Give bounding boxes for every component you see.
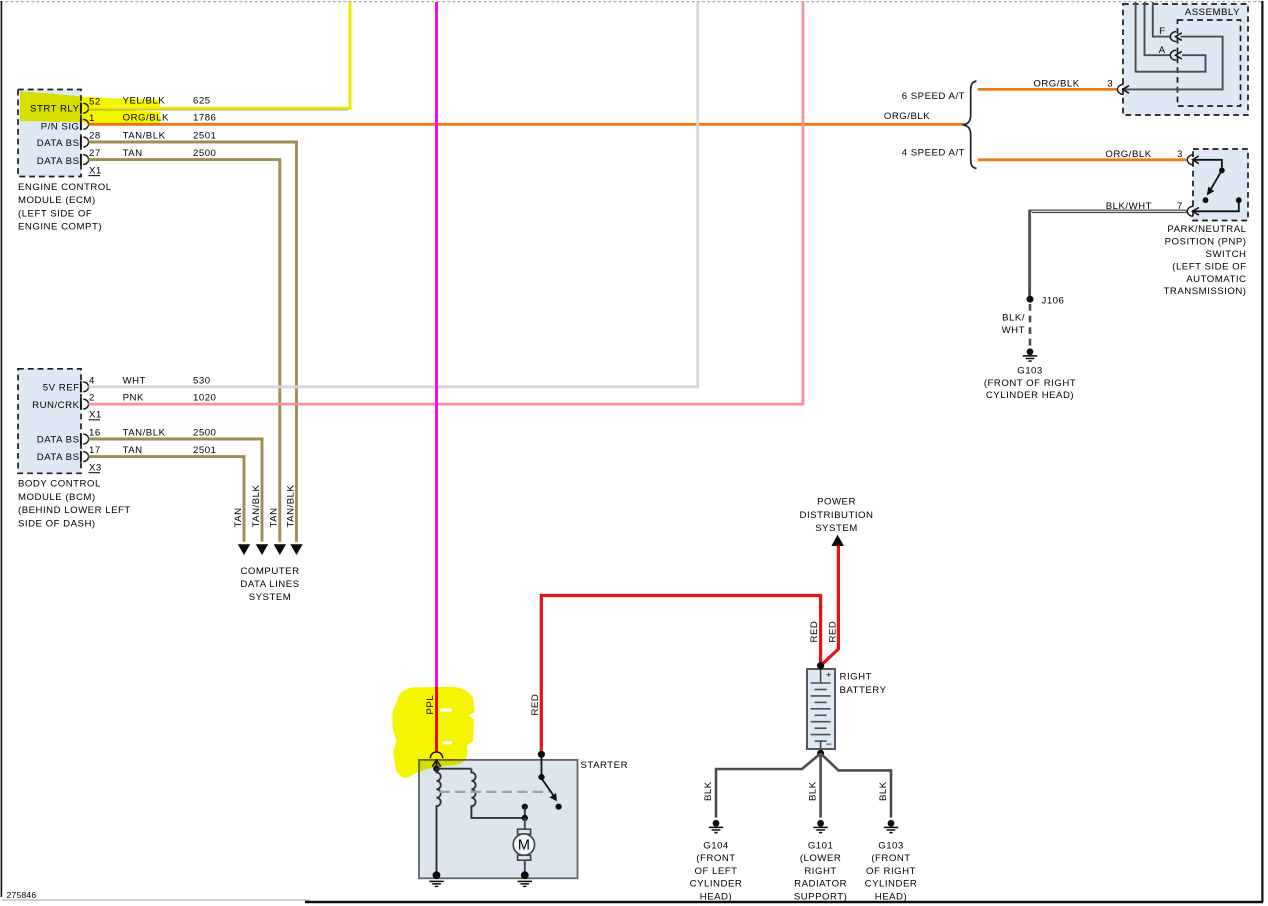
starter ground symbol left: [429, 880, 443, 882]
battery negative junction dot: [817, 750, 824, 757]
svg-text:2500: 2500: [193, 148, 216, 159]
svg-text:J106: J106: [1042, 296, 1065, 307]
up arrow to power distribution: [831, 535, 844, 546]
svg-text:CYLINDER: CYLINDER: [865, 879, 918, 890]
svg-text:3: 3: [1177, 149, 1183, 160]
svg-text:CYLINDER HEAD): CYLINDER HEAD): [986, 390, 1074, 401]
svg-text:3: 3: [1107, 78, 1113, 89]
svg-text:RED: RED: [827, 621, 838, 643]
svg-text:(FRONT OF RIGHT: (FRONT OF RIGHT: [984, 378, 1076, 389]
svg-text:SYSTEM: SYSTEM: [249, 592, 292, 603]
svg-text:(FRONT: (FRONT: [696, 853, 735, 864]
PNP contact dot park: [1203, 197, 1209, 203]
svg-text:BLK/WHT: BLK/WHT: [1106, 201, 1152, 212]
wire TAN 2500 ECM: [89, 160, 280, 542]
svg-text:BLK: BLK: [878, 781, 889, 801]
svg-text:1786: 1786: [193, 112, 216, 123]
svg-text:RIGHT: RIGHT: [804, 866, 836, 877]
wire TAN/BLK 2500 BCM: [89, 439, 263, 542]
starter hold-in coil: [437, 769, 441, 876]
svg-text:TRANSMISSION): TRANSMISSION): [1164, 286, 1247, 297]
svg-text:(LEFT SIDE OF: (LEFT SIDE OF: [1172, 261, 1246, 272]
wire PPL red-looking segment under highlighter: [435, 685, 438, 752]
ECM pin 52 connector: [83, 103, 88, 113]
svg-text:BLK/: BLK/: [1002, 313, 1025, 324]
wire BLK to G103: [821, 753, 891, 817]
BCM connector box: [18, 369, 81, 474]
svg-text:PNK: PNK: [123, 393, 144, 404]
svg-text:STARTER: STARTER: [581, 760, 629, 771]
starter coil junction dot: [522, 815, 528, 821]
assembly internal wire from pin A loop: [1136, 2, 1206, 72]
wire BLK to G104: [716, 753, 821, 817]
svg-text:DATA BS: DATA BS: [37, 138, 80, 149]
svg-text:OF LEFT: OF LEFT: [694, 866, 737, 877]
starter PPL connector arc: [430, 752, 442, 758]
down arrow to data lines at x=262: [256, 544, 268, 555]
svg-text:P/N SIG: P/N SIG: [41, 122, 80, 133]
highlighter mark over PPL at starter: [393, 687, 475, 778]
svg-text:X3: X3: [89, 463, 102, 474]
assembly wire into pin F: [1153, 2, 1171, 37]
brace 6/4 speed split: [964, 81, 977, 169]
svg-text:POSITION (PNP): POSITION (PNP): [1165, 237, 1247, 248]
wire RED battery to PDS: [821, 546, 839, 666]
starter ground dot left: [433, 871, 441, 879]
assembly inner box: [1178, 20, 1241, 106]
page bottom border: [2, 899, 310, 901]
svg-text:SUPPORT): SUPPORT): [794, 892, 848, 903]
svg-text:G101: G101: [808, 841, 834, 852]
page right border: [1261, 1, 1263, 902]
PNP internal wire pin 7: [1193, 203, 1239, 212]
wire YEL/BLK 625: [89, 2, 351, 108]
svg-text:POWER: POWER: [817, 497, 856, 508]
starter switch arm: [542, 780, 553, 796]
svg-text:WHT: WHT: [1002, 325, 1025, 336]
starter contact stub: [524, 807, 526, 818]
svg-text:M: M: [518, 838, 530, 854]
PNP pin 3 connector: [1187, 155, 1193, 165]
svg-text:A: A: [1159, 45, 1166, 56]
svg-text:PARK/NEUTRAL: PARK/NEUTRAL: [1167, 224, 1246, 235]
svg-text:TAN: TAN: [233, 507, 244, 527]
starter switch open contact dot: [556, 804, 562, 810]
svg-text:16: 16: [89, 428, 101, 439]
svg-text:G104: G104: [703, 841, 729, 852]
wire PNK 1020: [89, 2, 804, 404]
starter wire to pull-in coil: [437, 768, 472, 770]
svg-text:SWITCH: SWITCH: [1206, 249, 1247, 260]
svg-text:TAN: TAN: [269, 507, 280, 527]
svg-text:2501: 2501: [193, 445, 216, 456]
wire WHT 530: [89, 2, 698, 387]
ground G101: [817, 820, 824, 827]
svg-text:DATA BS: DATA BS: [37, 156, 80, 167]
svg-text:RUN/CRK: RUN/CRK: [32, 400, 79, 411]
svg-text:ORG/BLK: ORG/BLK: [1033, 78, 1079, 89]
svg-text:ENGINE CONTROL: ENGINE CONTROL: [18, 182, 112, 193]
svg-text:WHT: WHT: [123, 375, 146, 386]
svg-text:ENGINE COMPT): ENGINE COMPT): [18, 222, 102, 233]
assembly wire into pin A: [1145, 2, 1171, 55]
svg-text:2500: 2500: [193, 428, 216, 439]
BCM pin 2 connector: [83, 399, 88, 409]
svg-text:RED: RED: [530, 694, 541, 716]
page top dashed border: [0, 1, 1262, 3]
svg-text:TAN/BLK: TAN/BLK: [123, 428, 166, 439]
svg-text:625: 625: [193, 96, 211, 107]
svg-text:17: 17: [89, 445, 101, 456]
wire PPL magenta段: [435, 2, 438, 685]
svg-text:27: 27: [89, 148, 101, 159]
assembly outer box: [1123, 4, 1248, 115]
ground G103 lower: [888, 820, 895, 827]
ECM pin 28 connector: [83, 137, 88, 147]
starter mechanical link dashed: [440, 791, 550, 793]
ground G103 upper: [1027, 348, 1034, 355]
battery box: [807, 669, 835, 749]
svg-text:2: 2: [89, 393, 95, 404]
svg-text:MODULE (ECM): MODULE (ECM): [18, 195, 96, 206]
svg-text:2501: 2501: [193, 131, 216, 142]
svg-text:TAN/BLK: TAN/BLK: [285, 485, 296, 528]
BCM pin 4 connector: [83, 382, 88, 392]
svg-text:ORG/BLK: ORG/BLK: [1105, 149, 1151, 160]
svg-text:OF RIGHT: OF RIGHT: [866, 866, 916, 877]
svg-text:TAN/BLK: TAN/BLK: [251, 485, 262, 528]
svg-text:DATA BS: DATA BS: [37, 452, 80, 463]
svg-text:DATA BS: DATA BS: [37, 435, 80, 446]
PNP internal wire pin 3 to contact: [1193, 160, 1222, 168]
starter pull-in coil: [471, 769, 524, 818]
svg-text:DISTRIBUTION: DISTRIBUTION: [800, 510, 874, 521]
PNP contact dot common: [1219, 168, 1225, 174]
svg-text:BODY CONTROL: BODY CONTROL: [18, 479, 101, 490]
starter wire contact to motor: [524, 818, 526, 829]
starter ground symbol right: [518, 880, 532, 882]
svg-text:DATA LINES: DATA LINES: [240, 579, 299, 590]
wire BLK/WHT: [1030, 211, 1187, 296]
wire ORG/BLK 4-speed branch: [978, 158, 1187, 161]
svg-text:+: +: [826, 670, 832, 681]
svg-text:TAN: TAN: [123, 148, 143, 159]
starter red feed junction dot: [538, 751, 545, 758]
svg-text:5V REF: 5V REF: [43, 383, 80, 394]
PNP pin 7 connector: [1187, 206, 1193, 216]
svg-text:G103: G103: [878, 841, 904, 852]
PNP switch arm: [1211, 173, 1221, 190]
svg-text:SIDE OF DASH): SIDE OF DASH): [18, 518, 96, 529]
wire BLK/WHT dashed to ground: [1029, 304, 1032, 348]
svg-text:CYLINDER: CYLINDER: [690, 879, 743, 890]
starter solenoid junction dot: [433, 765, 440, 772]
starter motor M: [518, 829, 531, 834]
BCM pin 16 connector: [83, 434, 88, 444]
svg-text:RIGHT: RIGHT: [840, 672, 872, 683]
highlighter skip marks: [440, 708, 452, 712]
svg-text:6 SPEED A/T: 6 SPEED A/T: [902, 91, 965, 102]
battery plates: [811, 682, 831, 684]
starter ground dot right: [521, 871, 529, 879]
battery positive junction dot: [817, 662, 824, 669]
svg-text:BLK: BLK: [703, 781, 714, 801]
svg-text:(LOWER: (LOWER: [800, 853, 842, 864]
starter PPL entry arrow: [432, 760, 440, 767]
svg-text:X1: X1: [89, 166, 102, 177]
svg-text:HEAD): HEAD): [700, 892, 732, 903]
ground G104: [713, 820, 720, 827]
svg-text:MODULE (BCM): MODULE (BCM): [18, 492, 96, 503]
ECM pin 27 connector: [83, 155, 88, 165]
starter motor contact dot: [522, 804, 528, 810]
svg-text:7: 7: [1177, 201, 1183, 212]
wire TAN 2501 BCM: [89, 457, 245, 542]
wire ORG/BLK 1786: [89, 123, 967, 126]
svg-text:530: 530: [193, 375, 211, 386]
wire TAN/BLK 2501 ECM: [89, 142, 297, 542]
svg-text:4: 4: [89, 375, 95, 386]
svg-text:SYSTEM: SYSTEM: [815, 523, 858, 534]
starter switch lead: [540, 756, 542, 777]
PNP contact dot B: [1236, 197, 1242, 203]
svg-text:AUTOMATIC: AUTOMATIC: [1186, 274, 1246, 285]
wire RED battery to starter: [541, 596, 820, 754]
svg-text:BATTERY: BATTERY: [840, 685, 887, 696]
svg-text:BLK: BLK: [808, 781, 819, 801]
splice J106: [1027, 296, 1034, 303]
starter box: [419, 760, 578, 878]
down arrow to data lines at x=279.8: [274, 544, 286, 555]
svg-text:(LEFT SIDE OF: (LEFT SIDE OF: [18, 208, 92, 219]
svg-text:28: 28: [89, 131, 101, 142]
starter wire motor to ground: [524, 860, 526, 875]
svg-text:−: −: [826, 739, 832, 751]
down arrow to data lines at x=296.5: [290, 544, 302, 555]
down arrow to data lines at x=244: [238, 544, 250, 555]
BCM pin 17 connector: [83, 452, 88, 462]
assembly pin 3 connector: [1118, 84, 1124, 94]
svg-text:(BEHIND LOWER LEFT: (BEHIND LOWER LEFT: [18, 505, 131, 516]
svg-text:275846: 275846: [7, 890, 37, 900]
wire BLK to G101: [819, 753, 822, 817]
svg-text:G103: G103: [1017, 366, 1043, 377]
svg-text:X1: X1: [89, 410, 102, 421]
svg-text:(FRONT: (FRONT: [871, 853, 910, 864]
ECM pin 1 connector: [83, 119, 88, 129]
wire ORG/BLK 6-speed branch: [978, 88, 1117, 91]
svg-text:F: F: [1159, 26, 1165, 37]
svg-text:RADIATOR: RADIATOR: [794, 879, 847, 890]
svg-text:1020: 1020: [193, 393, 216, 404]
assembly pin F connector: [1170, 32, 1176, 42]
svg-text:4 SPEED A/T: 4 SPEED A/T: [902, 148, 965, 159]
highlighter mark over STRT RLY and ORG/BLK row: [20, 92, 161, 126]
svg-text:HEAD): HEAD): [875, 892, 907, 903]
svg-text:TAN: TAN: [123, 445, 143, 456]
svg-text:ORG/BLK: ORG/BLK: [884, 111, 930, 122]
starter switch common dot: [538, 774, 544, 780]
svg-text:RED: RED: [809, 621, 820, 643]
page left border: [0, 1, 2, 897]
PNP switch box: [1193, 149, 1248, 221]
svg-text:COMPUTER: COMPUTER: [240, 566, 299, 577]
svg-text:TAN/BLK: TAN/BLK: [123, 131, 166, 142]
assembly internal wire pin F to pin 3: [1123, 37, 1223, 90]
ECM connector box: [18, 90, 81, 177]
assembly pin A connector: [1170, 50, 1176, 60]
svg-text:ASSEMBLY: ASSEMBLY: [1185, 7, 1240, 18]
